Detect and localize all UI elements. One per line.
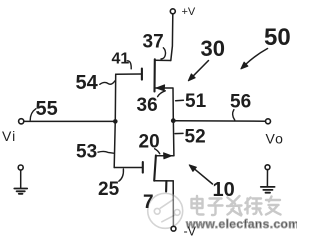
leader of 37 (161, 48, 166, 59)
arrow leader of 30 (188, 61, 208, 81)
svg-text:53: 53 (76, 142, 97, 163)
svg-text:51: 51 (185, 91, 207, 112)
arrow leader of 50 (241, 49, 268, 69)
leader of 25 (119, 169, 124, 181)
svg-text:Vo: Vo (266, 131, 284, 147)
leader of 53 (98, 151, 114, 153)
svg-text:-V: -V (184, 225, 197, 238)
wire: drain lead 20 of transistor 10 (156, 155, 174, 157)
leader of 54 (100, 81, 115, 84)
right ground symbol (261, 187, 275, 193)
svg-text:37: 37 (143, 31, 164, 52)
svg-text:25: 25 (98, 179, 120, 200)
-V supply terminal circle (171, 226, 176, 231)
gate rail: lower segment (114, 124, 115, 168)
wire: source of 10 down to -V (172, 181, 174, 226)
left ground symbol (14, 189, 27, 194)
svg-text:30: 30 (201, 36, 225, 61)
transistor 30 gate bar 41 (141, 69, 143, 80)
Vi input terminal circle (19, 119, 24, 124)
+V supply terminal circle (170, 9, 175, 14)
svg-text:Vi: Vi (2, 128, 16, 144)
wire: rail from node down to drain of 10 (172, 123, 175, 156)
svg-text:54: 54 (76, 72, 99, 94)
Vo output terminal circle (266, 119, 271, 124)
leader of 41 (127, 61, 131, 69)
svg-text:50: 50 (264, 24, 291, 51)
wire 56: output line to Vo (176, 120, 266, 122)
right ground stem (266, 170, 268, 187)
svg-text:41: 41 (112, 51, 130, 68)
svg-text:+V: +V (182, 6, 196, 18)
wire: drain lead 37 of transistor 30 (155, 59, 171, 61)
svg-text:10: 10 (213, 179, 235, 201)
svg-text:www.elecfans.com: www.elecfans.com (185, 217, 297, 231)
wire: source lead 7 of transistor 10 (154, 180, 173, 182)
wire: +V drop to drain of 30 (171, 14, 173, 61)
leader of 20 (155, 149, 160, 154)
left ground stem (20, 170, 22, 188)
leader of 56 (233, 110, 235, 121)
wire 55: input line from Vi (24, 120, 113, 122)
transistor 30 source arrow 36 (156, 85, 164, 91)
gate rail: upper segment (114, 74, 116, 119)
left ground terminal circle (18, 165, 23, 170)
junction dot at input node (113, 119, 118, 124)
wire: source lead of 30 to output node (155, 88, 174, 119)
leader dash of 52 (175, 132, 183, 134)
transistor 10 channel bar (154, 155, 156, 180)
stub: leader tick of label 7 (165, 181, 167, 191)
leader of 55 (30, 109, 36, 120)
svg-text:36: 36 (137, 95, 158, 116)
svg-text:7: 7 (143, 192, 154, 213)
transistor 10 drain arrow (164, 153, 172, 159)
right ground terminal circle (265, 165, 270, 170)
watermark: elecfans logo (148, 193, 183, 228)
transistor 30 gate lead (116, 73, 142, 75)
svg-text:56: 56 (230, 92, 251, 113)
leader dash of 51 (176, 99, 184, 101)
svg-text:55: 55 (36, 98, 58, 120)
arrow leader of 10 (189, 165, 212, 184)
watermark: 电子发烧友 text (drawn glyph blocks, embossed) (191, 195, 281, 215)
transistor 30 channel bar (153, 59, 155, 91)
svg-text:52: 52 (185, 127, 206, 148)
transistor 10 gate lead (114, 167, 142, 169)
transistor 10 gate bar 25 (142, 162, 144, 173)
junction node 51 (output node dot) (171, 118, 176, 123)
leader of 36 (158, 91, 166, 97)
